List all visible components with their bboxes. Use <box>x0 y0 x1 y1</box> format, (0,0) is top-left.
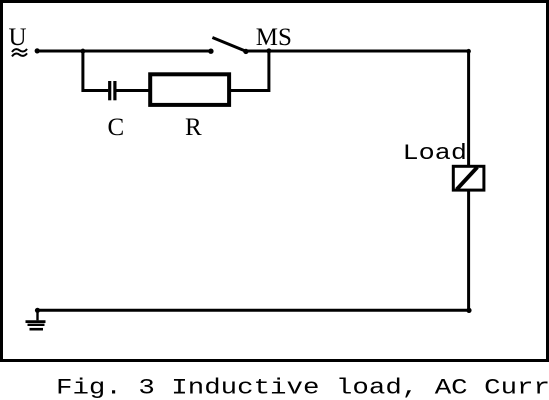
wire: top wire from switch to top-right corner <box>246 50 469 53</box>
ground symbol stem <box>36 310 38 320</box>
AC symbol ≈ <box>12 49 27 52</box>
svg-text:C: C <box>108 114 125 141</box>
switch MS right contact dot <box>243 49 248 54</box>
svg-text:U: U <box>9 24 27 51</box>
wire: top wire from source to switch left contact <box>37 50 211 53</box>
svg-text:MS: MS <box>256 24 292 51</box>
wire: right vertical wire from top corner through load to bottom <box>467 51 470 311</box>
svg-text:R: R <box>185 114 202 141</box>
wire: capacitor to resistor <box>117 89 151 92</box>
ground symbol bar 1 <box>26 320 46 323</box>
switch MS blade (open) <box>212 38 246 52</box>
load box <box>453 166 484 190</box>
ground symbol bar 2 <box>28 324 45 326</box>
capacitor C right plate <box>113 81 116 100</box>
wire: resistor to right junction, up to top wire <box>229 51 269 91</box>
load box diagonal <box>457 167 478 189</box>
resistor R body <box>150 74 229 105</box>
node: top-right corner dot <box>466 49 471 54</box>
node: junction of snubber branch on top wire <box>80 49 85 54</box>
svg-text:Fig. 3 Inductive load, AC Curr: Fig. 3 Inductive load, AC Curr <box>56 376 549 400</box>
wire: snubber branch down from left junction and to capacitor <box>83 51 108 91</box>
node: ground connection dot <box>35 308 40 313</box>
ground symbol bar 3 <box>30 328 44 331</box>
node: bottom-right corner dot <box>466 308 471 313</box>
node: source terminal dot <box>35 48 40 53</box>
capacitor C left plate <box>108 81 111 100</box>
svg-text:Load: Load <box>403 141 468 166</box>
switch MS left contact dot <box>208 49 213 54</box>
node: junction of snubber return on top wire <box>266 48 271 53</box>
wire: bottom return wire <box>38 309 470 312</box>
